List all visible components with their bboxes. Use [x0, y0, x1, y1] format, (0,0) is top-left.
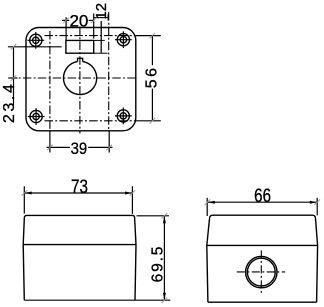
right vertical centerline (39 reference) — [108, 12, 110, 131]
svg-text:23.4: 23.4 — [1, 82, 18, 124]
front view: bottom edge extended as 69.5 extension line — [24, 299, 170, 301]
dimension 39: right extension line — [108, 132, 110, 153]
screw hole bottom-left with center cross — [28, 108, 45, 125]
svg-text:56: 56 — [144, 66, 161, 89]
dimension 20: left extension line — [65, 17, 67, 40]
upper horizontal centerline (56 reference) — [45, 35, 136, 37]
lower horizontal centerline (56 reference) — [45, 120, 136, 122]
window top edge extension line — [94, 39, 105, 41]
dimension 73: left arrowhead — [24, 192, 31, 195]
screw hole top-left with center cross — [27, 32, 44, 49]
front view: box body side edges — [23, 245, 136, 301]
svg-text:66: 66 — [254, 184, 271, 206]
svg-text:39: 39 — [71, 140, 88, 158]
dimension 12: vertical dimension line for window height — [100, 21, 102, 53]
side view: bottom edge — [208, 301, 317, 303]
dimension 69.5: dimension line — [163, 216, 165, 300]
dimension 66: right extension line — [316, 198, 318, 216]
dimension 66: dimension line — [207, 201, 317, 203]
side view: hole vertical centerline — [260, 250, 262, 293]
dimension 69.5: bottom arrowhead — [163, 293, 166, 300]
dimension 73: dimension line — [24, 192, 132, 194]
dimension 73: right arrowhead — [125, 192, 132, 195]
side view: box lid outline — [207, 215, 318, 245]
dimension 23.4: tick at centerline crossing — [10, 77, 18, 79]
dimension 56: top extension line — [136, 35, 161, 37]
front view: box lid outline — [23, 215, 136, 244]
dimension 73: right extension line — [131, 186, 133, 214]
front view: lid/body separation line — [23, 244, 136, 246]
dimension 39: left extension line — [49, 132, 51, 153]
dimension 73: left extension line — [23, 186, 25, 213]
side view: lid/body separation line — [207, 244, 318, 246]
top view: mounting plate outline — [26, 28, 136, 131]
dimension 66: left extension line — [206, 198, 208, 216]
dimension 39: dimension line segments — [47, 146, 113, 148]
svg-text:73: 73 — [71, 175, 88, 197]
dimension 23.4: vertical dimension line — [13, 47, 15, 105]
dimension 12: end tick — [107, 14, 109, 20]
dimension 69.5: top arrowhead — [163, 216, 166, 223]
dimension 23.4: extension line from window midline — [8, 46, 62, 48]
svg-text:69.5: 69.5 — [150, 245, 167, 283]
svg-text:12: 12 — [93, 3, 110, 20]
central operator hole (arc broken at top for keyway) — [64, 62, 97, 95]
dimension 56: dimension line segments — [151, 36, 153, 121]
side view: cable entry hole (double circle) — [246, 256, 277, 287]
dimension 20: dimension line segments — [62, 19, 94, 21]
nameplate window rectangle — [66, 40, 94, 53]
dimension 20: right extension line — [93, 14, 95, 39]
dimension 56: bottom extension line — [136, 120, 161, 122]
vertical main centerline — [79, 27, 81, 134]
left vertical centerline (39 reference) — [49, 31, 51, 131]
svg-text:20: 20 — [69, 12, 88, 31]
dimension 69.5: top extension line — [137, 215, 170, 217]
screw hole top-right with center cross — [115, 31, 132, 48]
window bottom edge extension line — [94, 52, 108, 54]
dimension 12: dimension line — [94, 17, 108, 19]
dimension 66: left arrowhead — [207, 201, 214, 204]
horizontal main centerline — [8, 77, 138, 79]
side view: box body side edges — [207, 245, 318, 302]
screw hole bottom-right with center cross — [115, 108, 132, 125]
keyway notch on central hole — [78, 58, 83, 61]
side view: hole horizontal centerline — [237, 271, 285, 273]
dimension 66: right arrowhead — [310, 201, 317, 204]
